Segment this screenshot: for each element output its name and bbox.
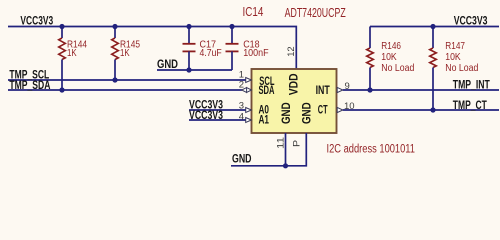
wire: TMP_SCL net: [8, 79, 246, 81]
svg-text:GND: GND: [157, 59, 178, 71]
pin 4 arrow (A1): [246, 118, 252, 123]
junction: R145 bottom on TMP_SCL: [112, 77, 117, 82]
svg-text:VDD: VDD: [286, 73, 300, 95]
svg-text:INT: INT: [316, 83, 331, 97]
capacitor C17: [183, 27, 196, 71]
svg-text:3: 3: [239, 101, 244, 112]
wire: capacitor ground wire: [157, 69, 232, 71]
resistor R147: [430, 27, 437, 111]
capacitor C18: [226, 27, 239, 71]
wire: VCC3V3 left power rail to IC pin 12: [8, 27, 296, 70]
pin 9 arrow (INT): [337, 87, 343, 92]
svg-text:2: 2: [239, 80, 244, 91]
svg-text:4: 4: [239, 111, 244, 122]
junction: C18 top on rail: [229, 24, 234, 29]
pin 1 arrow (SCL): [246, 78, 252, 83]
junction: C17 top on rail: [186, 24, 191, 29]
wire: A0 stub to VCC3V3: [189, 109, 246, 111]
junction: R146 bottom on TMP_INT: [367, 87, 372, 92]
svg-text:TMP_CT: TMP_CT: [453, 100, 487, 112]
svg-text:GND: GND: [232, 154, 252, 166]
svg-text:No Load: No Load: [445, 62, 478, 74]
svg-text:GND: GND: [279, 102, 293, 124]
wire: TMP_SDA net: [8, 89, 242, 91]
svg-text:SDA: SDA: [259, 83, 275, 97]
svg-text:4.7uF: 4.7uF: [200, 47, 222, 59]
svg-text:1K: 1K: [120, 47, 130, 59]
junction: R147 top on right rail: [430, 24, 435, 29]
wire: pin 11 to ground wire: [285, 133, 287, 166]
svg-text:CT: CT: [318, 103, 328, 117]
pin 10 arrow (CT): [337, 107, 343, 112]
svg-text:TMP_SDA: TMP_SDA: [9, 80, 50, 92]
svg-text:A1: A1: [259, 113, 270, 127]
svg-text:P: P: [292, 140, 303, 147]
svg-text:VCC3V3: VCC3V3: [454, 16, 488, 28]
wire: IC ground wire (pins 11 and P): [231, 133, 306, 166]
IC U=IC14 body ADT7420UCPZ: [252, 69, 337, 133]
svg-text:VCC3V3: VCC3V3: [20, 16, 53, 28]
svg-text:IC14: IC14: [243, 5, 264, 19]
junction: R145 top on rail: [112, 24, 117, 29]
wire: TMP_CT net: [343, 109, 499, 111]
junction: C17 bottom on ground wire: [186, 67, 191, 72]
svg-text:ADT7420UCPZ: ADT7420UCPZ: [285, 6, 346, 20]
svg-text:100nF: 100nF: [243, 47, 268, 59]
pin 3 arrow (A0): [246, 108, 252, 113]
svg-text:I2C address 1001011: I2C address 1001011: [327, 143, 416, 155]
resistor R144: [59, 27, 66, 91]
resistor R145: [112, 27, 119, 81]
wire: TMP_INT net: [343, 89, 499, 91]
svg-text:VCC3V3: VCC3V3: [189, 110, 223, 122]
junction: R144 bottom on TMP_SDA: [59, 87, 64, 92]
svg-text:12: 12: [286, 46, 297, 56]
junction: R144 top on rail: [59, 24, 64, 29]
svg-text:GND: GND: [299, 102, 313, 124]
junction: R147 bottom on TMP_CT: [430, 107, 435, 112]
svg-text:TMP_INT: TMP_INT: [453, 80, 490, 92]
svg-text:No Load: No Load: [381, 62, 414, 74]
pin 2 arrow (SDA, bidirectional): [242, 88, 252, 93]
wire: A1 stub to VCC3V3: [189, 119, 246, 121]
resistor R146: [367, 27, 374, 91]
junction: pin 11 on ground wire: [283, 163, 288, 168]
svg-text:1K: 1K: [67, 47, 77, 59]
wire: VCC3V3 right power rail: [370, 26, 499, 28]
